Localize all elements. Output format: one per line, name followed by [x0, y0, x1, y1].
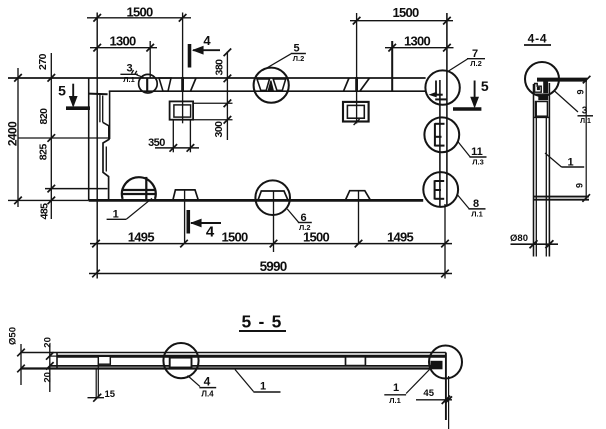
- top edge slant mark D: [344, 78, 350, 91]
- section 4-4 anchor hook in circle: [535, 84, 542, 93]
- bottom edge key pair H: [345, 191, 370, 201]
- right opening inner: [347, 105, 364, 118]
- svg-text:Ø80: Ø80: [510, 233, 528, 244]
- bottom edge key pair F: [173, 190, 199, 201]
- strip top face line: [21, 352, 446, 354]
- panel top edge outer line: [8, 77, 426, 79]
- svg-text:9: 9: [576, 89, 586, 94]
- left outer chain 2400: [17, 68, 19, 207]
- svg-text:1300: 1300: [109, 34, 136, 49]
- svg-text:350: 350: [148, 137, 165, 149]
- top edge slant mark E: [360, 78, 370, 91]
- svg-text:15: 15: [105, 389, 116, 400]
- small detail circle node 3: [139, 74, 158, 93]
- section marker 4 bottom: [187, 210, 191, 234]
- 15 dim verticals: [95, 369, 97, 399]
- section marker 4 top: [188, 44, 192, 68]
- svg-text:1300: 1300: [404, 34, 431, 49]
- section 4-4 dark rect: [538, 95, 548, 100]
- svg-text:1495: 1495: [128, 229, 155, 244]
- top-left corner ledge: [89, 93, 108, 96]
- section 4-4 black bar: [543, 81, 548, 94]
- section 4-4 detail circle: [525, 62, 559, 96]
- section marker 5 right: [453, 107, 481, 111]
- panel top edge inner line: [109, 90, 426, 92]
- extension from key G: [273, 191, 275, 252]
- svg-text:5 - 5: 5 - 5: [241, 312, 282, 332]
- svg-text:Л.1: Л.1: [580, 118, 591, 125]
- dim line x=227.4 for 380 and 300: [226, 52, 228, 141]
- svg-text:3: 3: [582, 106, 588, 117]
- extension line x=356.6 through right opening: [356, 13, 358, 124]
- strip right end edge: [445, 353, 447, 421]
- key rect left on strip: [98, 356, 110, 364]
- svg-text:1500: 1500: [392, 5, 419, 20]
- opening in section 5-5: [170, 358, 192, 368]
- panel bottom edge outer line: [89, 199, 424, 202]
- section 4-4 column verticals: [533, 84, 535, 257]
- detail circle node 11 right middle: [424, 117, 459, 152]
- svg-text:5: 5: [293, 43, 299, 55]
- panel bottom edge extension left: [8, 199, 89, 201]
- section marker 5 left: [66, 106, 90, 110]
- section 4-4 cross line: [534, 116, 550, 118]
- extension lines below left opening: [172, 120, 174, 152]
- svg-text:Л.2: Л.2: [470, 59, 482, 68]
- svg-text:380: 380: [214, 59, 226, 76]
- dim line 350: [155, 147, 199, 149]
- panel left edge outer: [88, 78, 90, 200]
- svg-text:Л.3: Л.3: [472, 158, 484, 167]
- callout 1 middle: [235, 370, 254, 392]
- section 4-4 opening rect: [536, 102, 548, 117]
- svg-text:4: 4: [203, 33, 211, 48]
- detail circle node 6 bottom: [255, 180, 290, 215]
- svg-text:Л.2: Л.2: [299, 223, 311, 232]
- strip left end: [56, 353, 58, 369]
- svg-text:5: 5: [481, 78, 489, 94]
- extension lines for 300 dim: [194, 102, 233, 104]
- right opening outer: [343, 102, 369, 122]
- svg-text:5: 5: [58, 83, 66, 99]
- svg-text:20: 20: [43, 372, 54, 383]
- svg-text:2400: 2400: [6, 121, 20, 146]
- circle 11 interior key profile: [434, 123, 436, 146]
- top edge key trapezoid A: [159, 78, 171, 91]
- circle 7 interior key profile: [435, 81, 437, 95]
- leader end marks: [132, 70, 134, 74]
- svg-text:Л.4: Л.4: [201, 389, 214, 398]
- section 5-5 detail circle 4: [163, 343, 198, 378]
- left opening inner: [174, 105, 191, 117]
- extension line x=182.6 through left opening: [182, 13, 184, 124]
- extension from key F to dim: [184, 190, 186, 244]
- svg-text:270: 270: [37, 53, 49, 70]
- callout 1/L1 right: [406, 370, 429, 394]
- svg-text:20: 20: [43, 337, 54, 348]
- svg-text:Л.1: Л.1: [123, 75, 135, 84]
- svg-text:Л.1: Л.1: [471, 209, 483, 218]
- svg-text:1: 1: [393, 382, 399, 394]
- section 4-4 line under hook: [534, 93, 548, 95]
- svg-text:4: 4: [206, 224, 215, 241]
- dim line 1300 top-right: [385, 47, 454, 49]
- detail circle node 7 right top: [425, 70, 459, 104]
- panel right edge outer: [446, 13, 448, 207]
- extension line y=138: [18, 137, 109, 139]
- svg-text:1495: 1495: [387, 229, 414, 244]
- strip top thick line: [50, 355, 57, 357]
- extension line x=392.2: [391, 41, 393, 92]
- dim line 1300 top-left: [90, 47, 157, 49]
- svg-text:825: 825: [38, 144, 50, 161]
- detail circle node 5 top: [254, 68, 289, 103]
- extension x=445 right bottom: [444, 204, 446, 279]
- extension from key H: [358, 191, 360, 244]
- left inner chain: [50, 53, 52, 219]
- svg-text:485: 485: [39, 203, 51, 220]
- section 4-4 bottom flange: [533, 196, 589, 198]
- svg-text:Ø50: Ø50: [8, 327, 19, 345]
- panel right edge inner: [439, 80, 441, 206]
- right key rect on strip: [346, 357, 366, 366]
- svg-text:4-4: 4-4: [528, 31, 548, 45]
- panel left edge line x=97.2 with dim extensions: [96, 13, 98, 279]
- svg-text:1: 1: [260, 381, 266, 393]
- left opening outer: [170, 101, 194, 119]
- svg-text:300: 300: [213, 121, 225, 138]
- top edge keys in big circle 5: [257, 79, 270, 90]
- left edge key profile: [103, 122, 109, 139]
- panel bottom inner line left: [45, 188, 108, 190]
- bottom edge key pair G in circle 6: [258, 191, 288, 200]
- detail dome arc on bottom edge: [122, 177, 156, 199]
- left edge channel lines: [99, 95, 101, 123]
- dim line 5990: [89, 273, 452, 275]
- section 4-4 top flange: [537, 78, 587, 82]
- callout 4/L4: [188, 376, 201, 387]
- section 4-4 callout 3/L1: [554, 91, 578, 113]
- svg-text:45: 45: [423, 388, 434, 399]
- svg-text:1500: 1500: [221, 229, 248, 244]
- circle 8 interior key profile: [434, 180, 436, 199]
- detail circle node 8 right bottom: [423, 172, 458, 207]
- dome interior lines: [122, 189, 155, 191]
- bottom chain dim line: [90, 243, 452, 245]
- section 5-5 right detail circle: [429, 346, 462, 379]
- svg-text:4: 4: [204, 375, 211, 389]
- dim line 1500 top-left: [87, 17, 191, 19]
- svg-text:1: 1: [113, 208, 119, 220]
- svg-text:9: 9: [575, 183, 585, 188]
- svg-text:5990: 5990: [260, 259, 287, 274]
- left edge inner face upper: [109, 91, 111, 139]
- left chain x=49.8: [49, 344, 51, 392]
- section 4-4 vertical dim line right: [585, 80, 587, 198]
- top edge slant mark B: [191, 78, 197, 91]
- black key at right end: [431, 361, 443, 370]
- svg-text:Л.2: Л.2: [293, 54, 305, 63]
- top edge vertical key in small circle: [146, 78, 148, 91]
- dim line 1500 top-right: [350, 20, 453, 22]
- svg-text:1500: 1500: [126, 5, 153, 20]
- left chain x=21: [20, 344, 22, 385]
- svg-text:820: 820: [38, 108, 50, 125]
- extension line x=150.2: [149, 41, 151, 78]
- svg-text:Л.1: Л.1: [389, 396, 401, 405]
- strip bottom line 2: [21, 367, 431, 369]
- hook core: [537, 87, 540, 90]
- strip bottom line 1: [50, 365, 431, 367]
- dim 45 right end: [448, 376, 450, 429]
